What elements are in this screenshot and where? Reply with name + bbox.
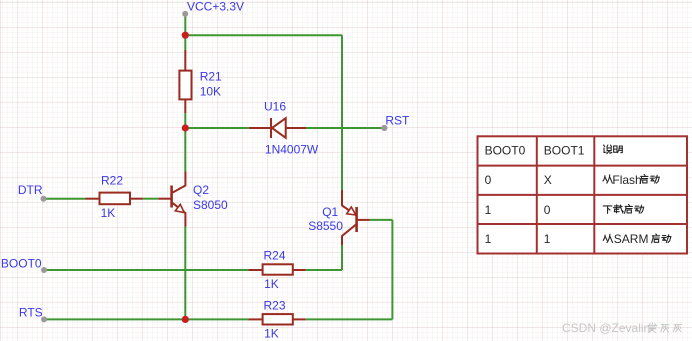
svg-text:R21: R21	[200, 70, 222, 84]
svg-text:1: 1	[544, 232, 551, 246]
svg-text:10K: 10K	[200, 85, 221, 99]
svg-text:DTR: DTR	[18, 183, 43, 197]
svg-text:1K: 1K	[264, 327, 279, 341]
svg-text:BOOT0: BOOT0	[1, 256, 42, 270]
svg-text:Q2: Q2	[193, 183, 209, 197]
svg-text:CSDN @Zevalin: CSDN @Zevalin	[562, 321, 650, 335]
svg-text:R23: R23	[264, 299, 286, 313]
svg-text:1K: 1K	[264, 277, 279, 291]
svg-text:0: 0	[485, 173, 492, 187]
svg-text:Flash: Flash	[612, 173, 641, 187]
svg-text:S8050: S8050	[193, 198, 228, 212]
svg-text:BOOT1: BOOT1	[544, 144, 585, 158]
svg-text:X: X	[544, 173, 552, 187]
svg-text:0: 0	[544, 203, 551, 217]
svg-text:Q1: Q1	[322, 205, 338, 219]
svg-text:R24: R24	[264, 249, 286, 263]
svg-text:1K: 1K	[101, 206, 116, 220]
svg-text:RST: RST	[385, 114, 410, 128]
svg-text:U16: U16	[264, 100, 286, 114]
svg-text:1: 1	[485, 232, 492, 246]
svg-text:1: 1	[485, 203, 492, 217]
svg-text:SARM: SARM	[614, 232, 649, 246]
svg-text:1N4007W: 1N4007W	[265, 142, 319, 156]
svg-text:BOOT0: BOOT0	[485, 144, 526, 158]
svg-text:VCC+3.3V: VCC+3.3V	[187, 0, 244, 13]
svg-text:R22: R22	[101, 173, 123, 187]
svg-text:RTS: RTS	[19, 306, 43, 320]
svg-text:S8550: S8550	[308, 219, 343, 233]
